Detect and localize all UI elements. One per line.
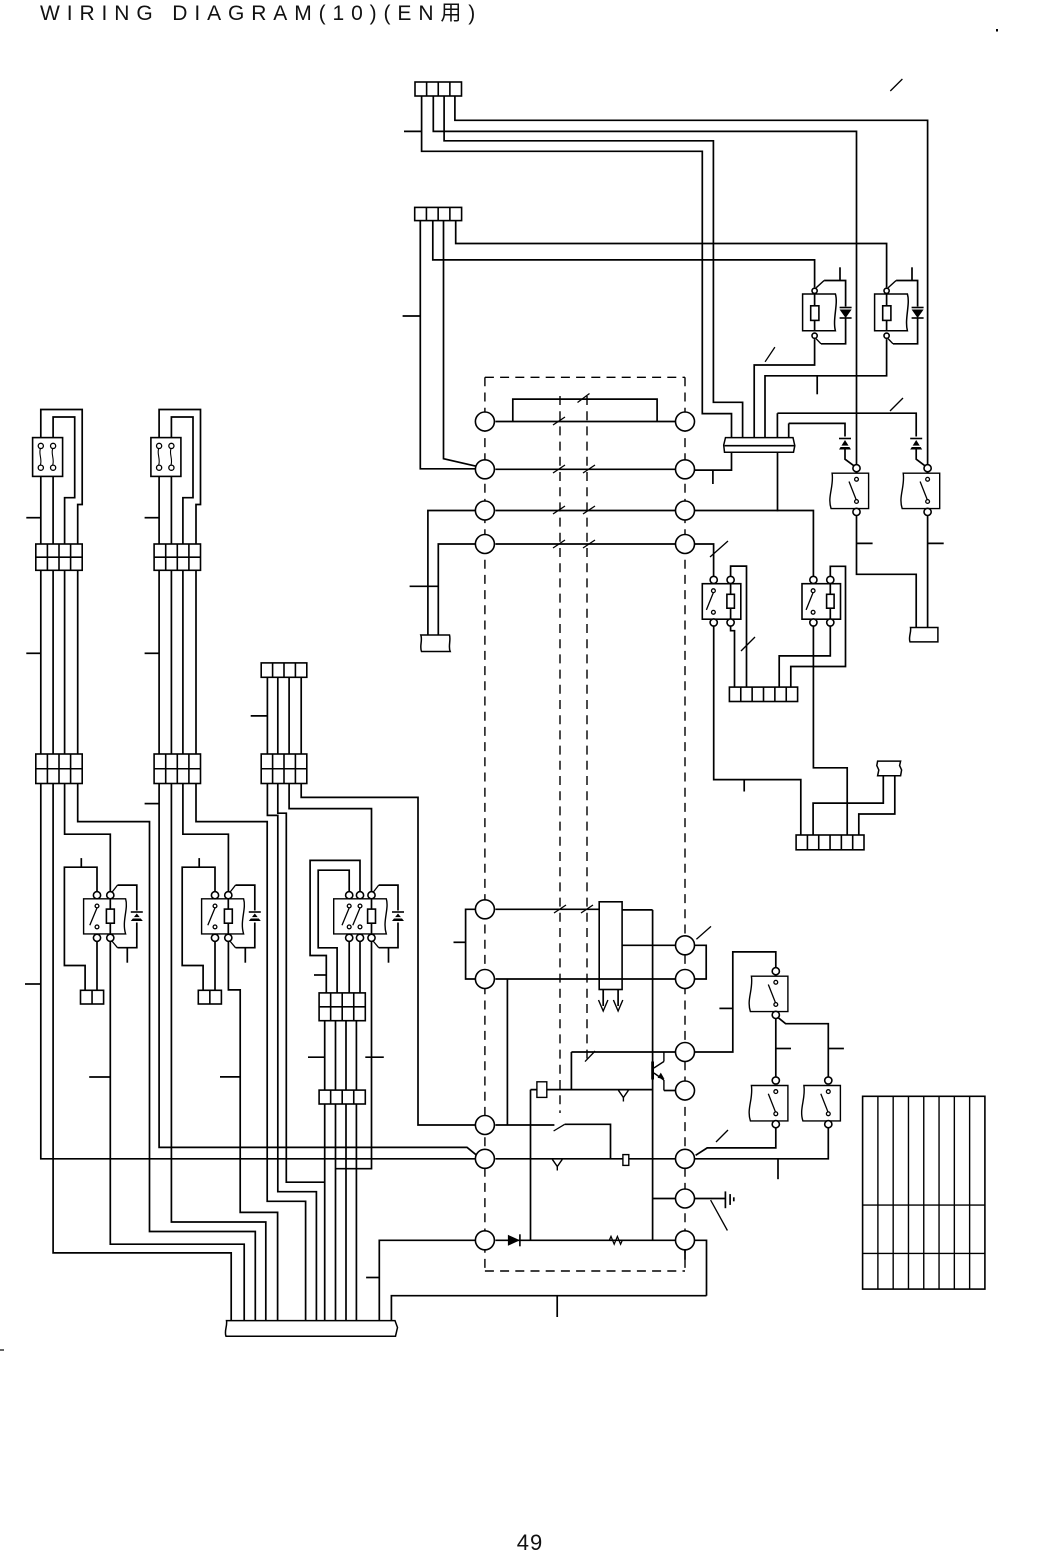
slash row4 a (553, 540, 565, 548)
connector CN7 (796, 835, 864, 850)
connector CN3 bar (724, 438, 795, 453)
wire L1 row (495, 1124, 554, 1126)
wire bundle1 w3 mid (64, 570, 66, 754)
wire SB2 pin1 down (158, 476, 160, 544)
arrow output 2 (617, 990, 619, 1007)
wire CN3 to diode D3 branch (776, 413, 778, 437)
slash on RYA feed (710, 541, 728, 557)
tick on L9 wire (366, 1277, 379, 1279)
tick CM3 right (365, 1056, 384, 1058)
relay RYA (710, 576, 717, 583)
slash row3 b (583, 506, 595, 514)
wire row3 to RYB (695, 511, 814, 577)
wire bundle2 w3 mid (182, 570, 184, 754)
wire L1 row cont (565, 1124, 611, 1159)
slash row2 b (583, 465, 595, 473)
connector CB3a (261, 663, 307, 677)
ground symbol (724, 1191, 726, 1208)
wire CN2-2 to RY1 (433, 221, 815, 288)
tick on S3 wire (719, 1007, 732, 1009)
connector CN4 (421, 635, 450, 652)
wire LM2 branch down (506, 979, 508, 1125)
wire bundle1 w4 mid (77, 570, 79, 754)
tick bundle2 b (145, 652, 160, 654)
slash row4 b (583, 540, 595, 548)
wire row3 left to CN4 (428, 511, 475, 636)
pin circle L5 (475, 900, 494, 919)
wire CM3 link2 (335, 1021, 337, 1090)
wire L9 to big connector (379, 1240, 475, 1320)
tick on CN4 wires (410, 585, 439, 587)
tick bundle2 a (145, 517, 160, 519)
pin circle R3 (676, 501, 695, 520)
relay module M1 (93, 892, 100, 899)
tick on M1 pin2 (89, 1076, 110, 1078)
wire mid row1 to block (495, 908, 599, 910)
pin circle R9 (676, 1149, 695, 1168)
wire CN1-1 to node 702 (422, 96, 732, 438)
wire M2 loop (182, 867, 215, 990)
wire bundle3 w2 top (277, 677, 279, 754)
contact slash L1 (554, 1124, 565, 1131)
wire M1 pin1 down (96, 941, 98, 990)
wire row4 left to CN4 (438, 544, 475, 635)
switch SW2 (924, 465, 931, 472)
pin circle R4 (676, 535, 695, 554)
connector CN8 (909, 628, 937, 642)
slash on S4-R3 wire (716, 1130, 728, 1142)
wire fuse row (531, 1089, 653, 1091)
slash row3 a (553, 506, 565, 514)
wire RYB bottom-right out (779, 626, 830, 687)
connector CM1 (81, 990, 104, 1004)
wire M3 pin3 jog (336, 941, 372, 1168)
wire SB1 pin1 down (40, 476, 42, 544)
wire RYA bottom-left out (714, 626, 801, 835)
wire CN1-2 to SW1 (433, 96, 856, 465)
tick on M3 loop (314, 974, 326, 976)
tick bundle2 c (145, 803, 160, 805)
pin circle L2 (475, 460, 494, 479)
wire row1 (495, 421, 675, 423)
stub on M2 loop (198, 858, 200, 867)
connector CN10 bar (225, 1321, 397, 1337)
wire M3 pin2 down (359, 941, 361, 993)
relay module M3 (346, 892, 353, 899)
jumper loop row1 (513, 399, 657, 421)
pin circle R7 (676, 1043, 695, 1062)
slash mid row1 b (581, 905, 593, 913)
relay module M2 (211, 892, 218, 899)
stub below R11 (684, 1250, 686, 1260)
wire RYA top-right bypass (731, 566, 747, 687)
wire M2 pin2 long (228, 941, 277, 1320)
slash on RYA bypass (741, 637, 755, 651)
tick on SW1 wire (857, 542, 873, 544)
wire row4 to RYA (695, 544, 714, 576)
tick on LM bracket (454, 941, 466, 943)
tick bundle1 c (25, 983, 41, 985)
pin circle L6 (475, 970, 494, 989)
wire CM3 link4 (355, 1021, 357, 1090)
pin circle L9 (475, 1231, 494, 1250)
dashed box left edge (484, 377, 486, 1271)
wire SB2 hook outer (159, 410, 200, 545)
wire CN2-3 diagonal to row2 (444, 221, 477, 467)
tick on CN2-1 (403, 315, 421, 317)
wire block to R1 (622, 944, 676, 946)
diode D5 (508, 1235, 520, 1246)
wire bottom row (495, 1239, 675, 1241)
relay RY2 (884, 288, 889, 293)
fuse F1 (537, 1082, 547, 1098)
pin circle R6 (676, 970, 695, 989)
wire R4b right to ground (695, 1198, 726, 1200)
tick on M2 pin2 (220, 1076, 240, 1078)
svg-text:49: 49 (517, 1530, 543, 1555)
wire bundle2 w3 to M2 (183, 784, 229, 892)
pin circle R11 (676, 1231, 695, 1250)
slash annotation top right (890, 79, 902, 91)
wire bundle2 w4 long (196, 784, 306, 1321)
control block (599, 902, 622, 990)
tick bundle1 a (26, 517, 41, 519)
connector CM3a (319, 993, 365, 1021)
wire CN9-2 to CN7 (859, 776, 895, 835)
wire bundle2 w2 mid (170, 570, 172, 754)
wire R11 to bottom loop (695, 1240, 707, 1295)
wire mid row2 (495, 978, 675, 980)
tick CM3 left (308, 1056, 325, 1058)
wire M3 loop inner (318, 870, 349, 993)
pin circle R1 (676, 412, 695, 431)
slash row2 a (553, 465, 565, 473)
arrow output 1 (602, 990, 604, 1007)
transistor Q1 (651, 1062, 654, 1080)
wire bundle3 w4 to L7 (301, 784, 475, 1126)
connector CB1b (36, 754, 82, 784)
wire SW1 down (857, 516, 917, 628)
fuse F2 (623, 1155, 629, 1166)
connector CN2 (415, 207, 462, 220)
switch box SB2 (151, 438, 181, 477)
relay RYB (810, 576, 817, 583)
vertical left branch (530, 1090, 532, 1241)
wire bundle3 w4 top (300, 677, 302, 754)
slash on RY1 out (765, 347, 775, 362)
pin circle R10 (676, 1189, 695, 1208)
connector CM2 (198, 990, 221, 1004)
pin circle R2 (676, 460, 695, 479)
bracket R1-R2 (695, 945, 707, 979)
pin circle L1 (475, 412, 494, 431)
wire CN1-4 to SW2 (455, 96, 928, 465)
dashed internal line 1 (559, 396, 561, 1113)
pin circle L8 (475, 1149, 494, 1168)
wire SB1 hook outer (41, 410, 82, 545)
wire CM3b pin4 down (355, 1104, 357, 1321)
connector CN1 (415, 82, 462, 96)
bracket LM1-LM2 (466, 909, 476, 979)
connector CM3b (319, 1090, 365, 1104)
wire bundle3 w3 top (288, 677, 290, 754)
wire bundle1 w2 long (53, 784, 231, 1321)
wire bundle2 w1 mid (158, 570, 160, 754)
slash row1 (553, 417, 565, 425)
wire mid row 1158 (495, 1158, 675, 1160)
diode D3 (910, 438, 922, 440)
connector CN6 (729, 687, 797, 701)
wire SB2 pin2 down (170, 476, 172, 544)
slash at R1 (696, 926, 711, 939)
wire R3 to S3 (695, 952, 776, 1052)
tick bundle3 a (251, 715, 268, 717)
wire S4 to R3 (696, 1128, 776, 1156)
wire S3 branch to S5 (778, 1017, 829, 1077)
stub on R3 row (777, 1159, 779, 1179)
wire Q1 emitter to R2b (664, 1090, 676, 1092)
wire row2 (495, 468, 675, 470)
wire bundle1 w1 long (41, 784, 476, 1159)
wire bundle3 w1 top (266, 677, 268, 754)
switch box SB1 (33, 438, 63, 477)
wire CM3 link3 (345, 1021, 347, 1090)
tick on SW2 wire (928, 542, 944, 544)
wire bottom loop (391, 1296, 706, 1321)
wire CM3b pin3 down (345, 1104, 347, 1321)
slash on D3 wire (890, 398, 903, 411)
wire bundle2 w1 to L8 (159, 784, 477, 1156)
wire bundle1 w3 to M1 (65, 784, 111, 892)
connector CB2a (154, 544, 200, 570)
stub on RYA out (743, 780, 745, 792)
tick on S3-S4 wire (776, 1048, 791, 1050)
slash mid row1 a (554, 905, 566, 913)
pin circle R5 (676, 936, 695, 955)
dashed internal line 2 (586, 396, 588, 1062)
wire CN9-1 to CN7 (813, 776, 883, 835)
wire CM3 link1 (324, 1021, 326, 1090)
wire bundle1 w1 mid (40, 570, 42, 754)
wire M3 pin1 down (348, 941, 350, 993)
slash on jumper (578, 394, 590, 403)
wire bundle2 w2 long (171, 784, 265, 1321)
wire row4 (495, 543, 675, 545)
wire SW2 down (927, 516, 929, 628)
wire CN3 bottom to row3 right (777, 452, 779, 511)
wire SB2 hook inner (171, 417, 193, 544)
connector CB3b (261, 754, 307, 784)
wire CN1-3 to node 713 (444, 96, 742, 438)
wire R1b row (571, 1051, 675, 1053)
tick below row2 right wire (712, 470, 714, 484)
wire M1 loop (64, 867, 97, 990)
slash contact R1b (585, 1051, 595, 1062)
dashed box top edge (485, 376, 685, 378)
slash long at R4b (711, 1200, 728, 1230)
pin circle L4 (475, 535, 494, 554)
switch S5 (825, 1077, 832, 1084)
wire SB1 hook inner (53, 417, 75, 544)
wire RYA bottom-right out (731, 626, 735, 687)
wire SB1 pin2 down (52, 476, 54, 544)
long vertical node line (652, 910, 654, 1240)
connector CB1a (36, 544, 82, 570)
wire RYB top-right bypass (791, 566, 846, 687)
wire bundle3 w2 long (278, 784, 325, 1183)
stray mark left edge (0, 1349, 4, 1351)
wire bundle1 w4 long (78, 784, 256, 1321)
connector CN9 (877, 761, 902, 776)
relay RY1 (812, 288, 817, 293)
wire switch to fuse row (570, 1052, 572, 1090)
stub below RY2 wire (816, 376, 818, 395)
arrow symbol on 1158 row (552, 1159, 562, 1166)
wire row3 (495, 510, 675, 512)
wire S3 to S4 (775, 1019, 777, 1077)
wire RYB bottom-left out (813, 626, 847, 835)
wire CN3 to diode D4 branch (788, 423, 790, 437)
wire RY2 out to bar (765, 339, 887, 438)
svg-text:WIRING DIAGRAM(10)(EN用): WIRING DIAGRAM(10)(EN用) (40, 2, 482, 25)
switch S3 (772, 968, 779, 975)
wire M1 pin2 long (110, 941, 244, 1320)
switch SW1 (853, 465, 860, 472)
wire RY1 out to bar (754, 339, 814, 438)
wire M2 pin1 down (214, 941, 216, 990)
dashed box bottom edge (485, 1270, 685, 1272)
wire CN3 bottom to row2 right (695, 452, 732, 470)
wire bundle1 w2 mid (52, 570, 54, 754)
stub on bottom loop (556, 1296, 558, 1317)
wire bundle3 w3 to M3 (289, 784, 371, 892)
resistor R zigzag (606, 1236, 626, 1244)
wire S5 to R3 row (695, 1128, 829, 1159)
stub on M1 loop (80, 858, 82, 867)
wire D3 to SW2 (916, 450, 925, 466)
switch S4 (772, 1077, 779, 1084)
stray mark top right (996, 29, 998, 32)
wire M3 loop outer (310, 860, 360, 993)
wire CM3b pin1 down (324, 1104, 326, 1321)
heater grid block (863, 1096, 985, 1289)
wire bundle3 w1 long (267, 784, 316, 1321)
wire block to node (622, 909, 653, 911)
tick on CN1-1 (404, 130, 422, 132)
diode D4 (839, 438, 851, 440)
tick on S5 feed (828, 1048, 844, 1050)
arrow symbol on fuse row (618, 1090, 628, 1097)
dashed box right edge (684, 377, 686, 1271)
connector CB2b (154, 754, 200, 784)
wire D4 to SW1 (845, 450, 854, 466)
pin circle R8 (676, 1081, 695, 1100)
wire CM3b pin2 down (335, 1104, 337, 1321)
pin circle L7 (475, 1116, 494, 1135)
tick bundle1 b (26, 652, 41, 654)
pin circle L3 (475, 501, 494, 520)
wire CN2-4 to RY2 (456, 221, 887, 288)
wire bundle2 w4 mid (195, 570, 197, 754)
wire CN2-1 to row2 (420, 221, 475, 469)
wire R4b left (653, 1198, 676, 1200)
